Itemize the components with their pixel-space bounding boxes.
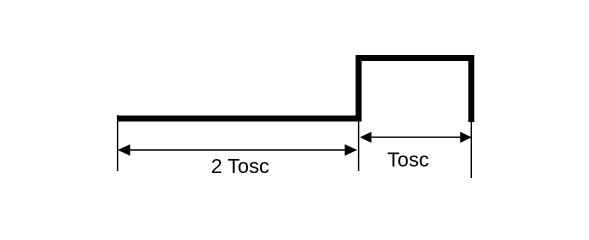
svg-text:2 Tosc: 2 Tosc xyxy=(211,156,269,178)
svg-text:Tosc: Tosc xyxy=(387,149,429,171)
